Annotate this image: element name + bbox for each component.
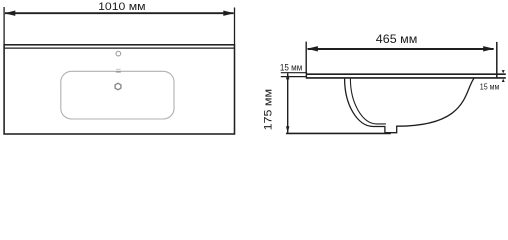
svg-text:1010 мм: 1010 мм [98,1,146,13]
svg-text:15 мм: 15 мм [280,63,302,73]
svg-text:465 мм: 465 мм [376,34,418,46]
svg-text:15 мм: 15 мм [480,82,500,91]
svg-text:175 мм: 175 мм [262,89,274,131]
